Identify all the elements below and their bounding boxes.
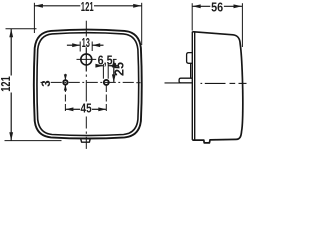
dimension 25 vertical line with arrows	[113, 59, 115, 82]
side view bracket foot	[179, 78, 192, 83]
bottom center bump on front view	[81, 138, 91, 142]
horizontal center line of cable hole	[77, 58, 97, 60]
lamp front view inner outline	[37, 33, 139, 136]
side view mounting plate (double vertical lines)	[191, 32, 193, 140]
side view horizontal center line (dash-dot)	[165, 82, 193, 84]
svg-text:56: 56	[211, 0, 223, 14]
dimension 121 left	[10, 29, 12, 76]
svg-text:121: 121	[0, 76, 13, 92]
dimension 6,5 lines and arrows	[96, 65, 104, 67]
svg-text:6,5: 6,5	[98, 54, 113, 68]
svg-text:25: 25	[113, 62, 127, 76]
side view rib line	[190, 63, 192, 78]
dimension texts	[0, 0, 223, 115]
cable entry hole (dia 13)	[81, 54, 92, 65]
left mounting hole (dia 3)	[63, 80, 67, 84]
svg-text:121: 121	[81, 0, 94, 14]
dashed hole center lines going down to dim 45	[64, 85, 66, 114]
extension lines for dimension 6,5	[102, 64, 104, 79]
lamp front view outer outline	[34, 30, 142, 139]
svg-text:45: 45	[81, 101, 92, 115]
dimension 121 top	[34, 5, 80, 7]
side view small tab on mounting plate	[187, 53, 193, 64]
right mounting hole (dia 6.5)	[104, 80, 109, 85]
dimension 3 arrows at left hole	[64, 74, 66, 80]
dimension 56 top right	[192, 5, 210, 7]
extension lines for 121 top	[33, 3, 35, 33]
side view body outline	[192, 32, 243, 143]
vertical center line of front view (dash-dot)	[85, 21, 87, 37]
horizontal center line through mounting holes (dash-dot)	[41, 81, 45, 83]
extension lines for 56	[191, 3, 193, 30]
extension lines for 121 left	[6, 28, 37, 30]
dimension 13	[67, 44, 80, 46]
svg-text:13: 13	[82, 36, 90, 50]
svg-text:3: 3	[41, 80, 53, 86]
dimension 45	[65, 108, 80, 110]
